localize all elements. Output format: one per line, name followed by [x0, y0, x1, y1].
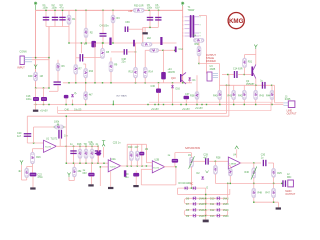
diode D12: [217, 208, 221, 212]
wire label box bottom: [58, 110, 271, 112]
wire matrix feed: [227, 183, 229, 198]
wire rail1: [58, 112, 227, 114]
logo KMG: [228, 13, 244, 29]
wire left vertical bus A: [35, 10, 37, 88]
svg-text:C40: C40: [65, 109, 70, 112]
resistor R20: [130, 144, 132, 166]
resistor R50: [198, 43, 200, 47]
svg-text:R10: R10: [89, 70, 94, 73]
wire gnd bus y104: [34, 104, 284, 106]
wire U4 out: [240, 162, 261, 164]
capacitor C2: [54, 10, 56, 26]
svg-text:63V: 63V: [83, 172, 88, 175]
power symbol V3: [254, 45, 257, 50]
svg-text:STAGE: STAGE: [206, 57, 214, 60]
capacitor C32: [54, 81, 61, 82]
svg-text:1: 1: [183, 24, 184, 26]
svg-text:R25: R25: [277, 172, 282, 175]
svg-text:1N48: 1N48: [223, 209, 229, 212]
capacitor C34: [133, 173, 139, 177]
wire secondary vertical: [206, 16, 208, 74]
capacitor C21: [58, 130, 59, 139]
svg-text:LM833: LM833: [230, 164, 237, 166]
junction matrix: [205, 194, 206, 195]
svg-text:4N35: 4N35: [210, 68, 216, 71]
wire c11 right: [83, 57, 101, 59]
svg-text:RJ45: RJ45: [285, 98, 291, 101]
svg-text:TR: TR: [84, 143, 87, 146]
wire U2B noninv: [141, 168, 152, 170]
svg-text:10u/25: 10u/25: [74, 109, 82, 112]
svg-text:1N48: 1N48: [199, 215, 205, 218]
svg-text:C18: C18: [26, 95, 31, 98]
resistor R4: [194, 38, 205, 42]
resistor R47: [273, 183, 275, 188]
wire matrix center bus: [205, 188, 207, 220]
resistor R40: [218, 90, 222, 99]
wire sat top: [174, 153, 176, 159]
ground G3: [32, 176, 34, 187]
resistor R8: [102, 43, 104, 48]
capacitor C37: [184, 96, 190, 100]
resistor R22: [73, 163, 75, 167]
wire U2 power: [110, 158, 112, 161]
wire vertical bus B: [48, 27, 50, 89]
diode D16: [172, 83, 174, 105]
svg-text:100n: 100n: [147, 7, 153, 10]
wire matrix top row: [178, 187, 206, 189]
wire U2B out: [164, 166, 176, 168]
ground G6: [205, 219, 207, 221]
resistor R17: [26, 167, 28, 169]
resistor R10: [85, 64, 87, 68]
svg-text:1N48: 1N48: [223, 198, 229, 201]
transformer T1: [190, 15, 192, 38]
wire U1 feedback left: [33, 127, 35, 143]
resistor R6: [57, 60, 59, 82]
wire mid column: [142, 27, 144, 43]
svg-text:R14: R14: [149, 71, 154, 74]
wire input cap drop: [26, 116, 28, 143]
svg-text:4k7: 4k7: [18, 170, 23, 173]
resistor R16: [31, 152, 35, 164]
wire input net: [32, 57, 49, 59]
capacitor C5: [149, 10, 151, 27]
resistor R28: [214, 161, 216, 165]
svg-text:100k: 100k: [54, 121, 60, 124]
svg-text:9: 9: [200, 17, 201, 19]
wire meter gnd row: [253, 198, 255, 203]
resistor R19: [85, 146, 87, 163]
ground G1: [144, 27, 146, 32]
svg-text:R38: R38: [190, 95, 195, 98]
testpoint input: [34, 65, 37, 70]
junction mid rail: [68, 42, 69, 43]
svg-text:100n: 100n: [43, 7, 49, 10]
svg-text:R43: R43: [260, 94, 265, 97]
capacitor C30: [263, 160, 264, 166]
capacitor C6: [157, 10, 159, 27]
svg-text:4u7: 4u7: [17, 135, 22, 138]
wire sat down: [190, 153, 192, 157]
svg-text:D10: D10: [210, 198, 215, 201]
capacitor C11: [76, 57, 80, 59]
wire label box top: [149, 101, 271, 103]
capacitor C24: [97, 146, 99, 163]
svg-text:C12: C12: [179, 48, 184, 51]
svg-text:2k2: 2k2: [147, 37, 152, 40]
svg-text:TL071: TL071: [45, 147, 52, 149]
svg-text:D11: D11: [210, 203, 215, 206]
capacitor C13: [161, 72, 166, 79]
svg-text:C39: C39: [125, 21, 130, 24]
svg-text:R18: R18: [77, 143, 82, 146]
wire tp loop: [26, 178, 28, 180]
resistor R18: [79, 146, 81, 163]
svg-text:R41: R41: [228, 94, 233, 97]
svg-text:R44: R44: [266, 94, 271, 97]
capacitor C39: [125, 26, 126, 32]
diode D13: [217, 214, 221, 218]
svg-text:C4 100n: C4 100n: [100, 25, 110, 28]
diode D11: [217, 202, 221, 206]
wire bank bottom: [66, 162, 108, 164]
resistor R48: [253, 183, 255, 188]
svg-text:C30: C30: [261, 154, 266, 157]
svg-text:MIC: MIC: [287, 176, 292, 179]
resistor R14: [144, 50, 146, 67]
svg-text:Q10: Q10: [171, 77, 176, 80]
resistor R43: [255, 85, 257, 90]
wire U2 gnd: [110, 171, 112, 187]
svg-text:1M: 1M: [40, 75, 43, 78]
wire C32 bottom: [57, 86, 59, 92]
svg-text:C37: C37: [185, 93, 190, 96]
svg-text:SATURATION: SATURATION: [185, 147, 200, 150]
svg-text:9: 9: [200, 36, 201, 38]
capacitor C20: [24, 133, 32, 134]
svg-text:1N48: 1N48: [223, 215, 229, 218]
resistor R49: [34, 72, 38, 81]
ground G4: [88, 184, 93, 186]
wire U2 out: [120, 165, 153, 167]
svg-text:TL072: TL072: [153, 167, 160, 169]
svg-text:100n: 100n: [52, 7, 58, 10]
svg-text:R13: R13: [129, 71, 134, 74]
capacitor C9: [133, 40, 135, 47]
capacitor C19: [43, 88, 45, 97]
junction bank bottom: [66, 163, 67, 164]
wire U2 fb: [126, 144, 128, 166]
svg-text:C20: C20: [17, 132, 22, 135]
wire to J3: [274, 85, 276, 103]
svg-text:1: 1: [183, 21, 184, 23]
svg-text:U2B: U2B: [155, 159, 160, 162]
wire U4 noninv: [228, 165, 230, 167]
potentiometer RV2: [141, 144, 143, 166]
capacitor C27: [90, 163, 92, 173]
svg-text:4n7: 4n7: [203, 157, 208, 160]
capacitor C38: [111, 51, 124, 53]
svg-text:1N48: 1N48: [199, 209, 205, 212]
resistor R30: [133, 8, 144, 12]
transistor Q2: [251, 67, 253, 77]
capacitor C23: [73, 146, 75, 163]
ground G8: [133, 185, 138, 187]
op-amp U2A: [108, 160, 120, 172]
wire rail2 feed: [228, 75, 230, 117]
svg-text:CONN: CONN: [20, 51, 27, 54]
svg-text:9: 9: [200, 24, 201, 26]
resistor R31: [243, 58, 247, 68]
resistor R12: [150, 48, 159, 52]
wire ring R2: [206, 210, 228, 216]
diode D9: [193, 214, 197, 218]
resistor R39: [85, 83, 87, 92]
junction gnd bus: [35, 104, 36, 105]
wire divider net: [199, 63, 220, 65]
capacitor C22: [30, 173, 37, 177]
svg-text:R42: R42: [238, 94, 243, 97]
transistor Q10: [180, 74, 182, 82]
wire tp2: [73, 177, 75, 181]
resistor R2: [85, 10, 87, 43]
optocoupler U3: [207, 72, 212, 81]
diode D4: [184, 186, 188, 190]
svg-text:OUTPUT: OUTPUT: [285, 193, 295, 196]
diode D7: [193, 202, 197, 206]
svg-text:R28: R28: [216, 157, 221, 160]
resistor R7: [74, 65, 78, 75]
diode D8: [193, 208, 197, 212]
svg-text:1M: 1M: [145, 148, 148, 151]
diode D10: [217, 196, 221, 200]
svg-text:R40: R40: [213, 94, 218, 97]
wire U2 plus net: [100, 166, 108, 168]
diode D6: [193, 196, 197, 200]
resistor R42: [243, 85, 245, 90]
resistor R3: [112, 10, 114, 43]
wire q2 emitter: [255, 79, 257, 86]
svg-text:C14 63R: C14 63R: [233, 68, 243, 71]
svg-text:MAIN: MAIN: [285, 190, 291, 193]
svg-text:R48: R48: [258, 192, 263, 195]
op-amp U2B: [152, 161, 164, 173]
svg-text:D16: D16: [176, 88, 181, 91]
wire q2 collector net: [255, 49, 257, 65]
trimpot RV3: [190, 157, 194, 167]
capacitor C31: [282, 180, 283, 187]
resistor R21: [91, 146, 93, 163]
wire U4 power: [236, 149, 238, 157]
svg-text:TR2W: TR2W: [188, 9, 196, 12]
svg-text:C36: C36: [151, 85, 156, 88]
wire out right: [268, 162, 273, 164]
wire stage1 vertical v95: [94, 43, 96, 83]
ground G7: [277, 202, 279, 207]
wire U1 out: [56, 145, 99, 147]
svg-text:R50: R50: [195, 43, 200, 46]
capacitor C8: [109, 38, 111, 46]
wire to U4: [209, 160, 228, 162]
testpoint TP2: [67, 173, 70, 178]
svg-text:LINE: LINE: [287, 110, 293, 113]
ground G5: [108, 187, 113, 189]
capacitor C12: [175, 47, 177, 53]
svg-text:NC: NC: [190, 183, 194, 186]
wire U1 feedback top: [34, 126, 67, 128]
resistor R41: [233, 85, 235, 90]
svg-text:1N48: 1N48: [199, 198, 205, 201]
testpoint TP1: [20, 160, 23, 165]
wire R16 bottom: [32, 164, 34, 173]
wire U1 inv net: [27, 142, 43, 144]
capacitor C36: [156, 89, 161, 93]
resistor R38: [196, 75, 198, 104]
svg-text:OUTPUT: OUTPUT: [287, 113, 297, 116]
svg-text:1N48: 1N48: [199, 203, 205, 206]
diode D2: [201, 177, 204, 179]
diode D5: [193, 186, 197, 190]
diode D1: [189, 77, 191, 83]
wire opto out: [222, 74, 234, 76]
svg-text:TL072: TL072: [110, 167, 117, 169]
svg-text:63V: 63V: [155, 7, 160, 10]
wire mid rail: [69, 42, 177, 44]
capacitor C3: [62, 10, 64, 26]
svg-text:INPUT: INPUT: [18, 67, 26, 70]
capacitor C29: [174, 163, 176, 167]
wire cap bottoms: [46, 26, 69, 28]
wire transformer left vertical: [182, 6, 184, 83]
svg-text:22n: 22n: [122, 61, 127, 64]
power symbol V1: [34, 2, 37, 5]
svg-text:+5/+5V: +5/+5V: [40, 110, 48, 113]
resistor R13: [135, 43, 137, 67]
wire rail2: [27, 115, 229, 117]
diode D15: [71, 94, 74, 96]
voltage ref REF1: [102, 141, 105, 147]
wire U2B inv: [146, 162, 152, 164]
svg-text:1: 1: [183, 36, 184, 38]
capacitor C7: [91, 41, 96, 48]
ground G2: [35, 105, 37, 110]
svg-text:U2A: U2A: [111, 158, 116, 161]
svg-text:9: 9: [200, 33, 201, 35]
junction stage1 bottom: [68, 82, 69, 83]
svg-text:4k7: 4k7: [89, 94, 94, 97]
svg-text:1M: 1M: [188, 154, 191, 157]
svg-text:OUTPUT: OUTPUT: [206, 54, 216, 57]
capacitor C4: [102, 10, 104, 33]
capacitor C33: [64, 95, 69, 99]
svg-text:100u: 100u: [26, 98, 32, 101]
svg-text:R49: R49: [28, 75, 33, 78]
wire ring R1: [206, 198, 228, 204]
svg-text:+24: +24: [168, 68, 173, 71]
svg-text:100/35: 100/35: [168, 71, 176, 74]
svg-text:R47: R47: [265, 192, 270, 195]
capacitor C16: [262, 82, 263, 89]
resistor R25: [272, 168, 276, 177]
capacitor C10: [160, 37, 162, 45]
connector J2 METER: [288, 180, 294, 187]
wire transformer secondary top: [199, 15, 207, 17]
wire rail1 feed: [226, 85, 228, 113]
wire meter bus: [215, 182, 283, 184]
svg-text:R46: R46: [245, 171, 250, 174]
capacitor C1: [45, 10, 47, 26]
wire divider out: [220, 84, 275, 86]
wire ring L2: [184, 210, 205, 216]
op-amp U4: [228, 157, 240, 169]
wire label box right: [270, 102, 272, 111]
svg-text:D13: D13: [210, 215, 215, 218]
wire y88 link: [36, 87, 49, 89]
svg-text:+24: +24: [128, 10, 133, 13]
wire label box left: [57, 107, 59, 114]
svg-text:C25 1n: C25 1n: [113, 141, 121, 144]
resistor R1: [68, 10, 70, 26]
wire stage1 bottom: [63, 82, 192, 84]
svg-text:1N48: 1N48: [223, 203, 229, 206]
junction top rail: [45, 10, 46, 11]
wire +24V rail: [36, 9, 183, 11]
capacitor C35: [124, 170, 126, 177]
wire stage1 vertical a: [75, 10, 77, 64]
capacitor C14: [234, 71, 235, 78]
svg-text:47u: 47u: [60, 7, 65, 10]
svg-text:R30 10R: R30 10R: [134, 5, 144, 8]
junction U1 out: [66, 146, 67, 147]
svg-text:D3 1N4148: D3 1N4148: [179, 182, 192, 185]
resistor R44: [271, 85, 273, 90]
resistor R9: [110, 58, 112, 62]
capacitor C18: [35, 88, 37, 97]
capacitor C26: [96, 152, 100, 156]
svg-text:1: 1: [183, 17, 184, 19]
svg-text:C28: C28: [203, 154, 208, 157]
svg-text:470n: 470n: [37, 176, 43, 179]
svg-text:1: 1: [183, 33, 184, 35]
resistor R24: [228, 168, 232, 176]
wire U2B fb: [141, 184, 176, 186]
capacitor C28: [193, 160, 205, 162]
svg-text:TL071: TL071: [51, 138, 58, 141]
svg-text:DIVIDER: DIVIDER: [206, 60, 216, 63]
wire cap bottoms mid: [143, 26, 159, 28]
resistor R5: [141, 42, 152, 46]
svg-text:D12: D12: [210, 209, 215, 212]
svg-text:KMG: KMG: [229, 18, 244, 25]
svg-text:R16: R16: [36, 156, 41, 159]
wire U1 noninv: [33, 148, 44, 150]
svg-text:R20: R20: [128, 146, 133, 149]
op-amp U1: [44, 140, 57, 152]
svg-text:417: 417: [135, 146, 140, 149]
wire matrix top loop: [177, 188, 179, 194]
resistor R23: [136, 144, 138, 166]
svg-text:1: 1: [183, 28, 184, 30]
wire preamp right vertical: [65, 116, 67, 163]
connector J1 INPUT: [20, 56, 24, 65]
junction meter bus: [227, 183, 228, 184]
power symbol V2: [181, 2, 184, 5]
svg-text:3.3k: 3.3k: [88, 141, 93, 144]
connector J3 LINE OUTPUT: [283, 102, 288, 104]
svg-text:+5/+5V: +5/+5V: [195, 107, 203, 110]
potentiometer RV1: [55, 125, 64, 129]
